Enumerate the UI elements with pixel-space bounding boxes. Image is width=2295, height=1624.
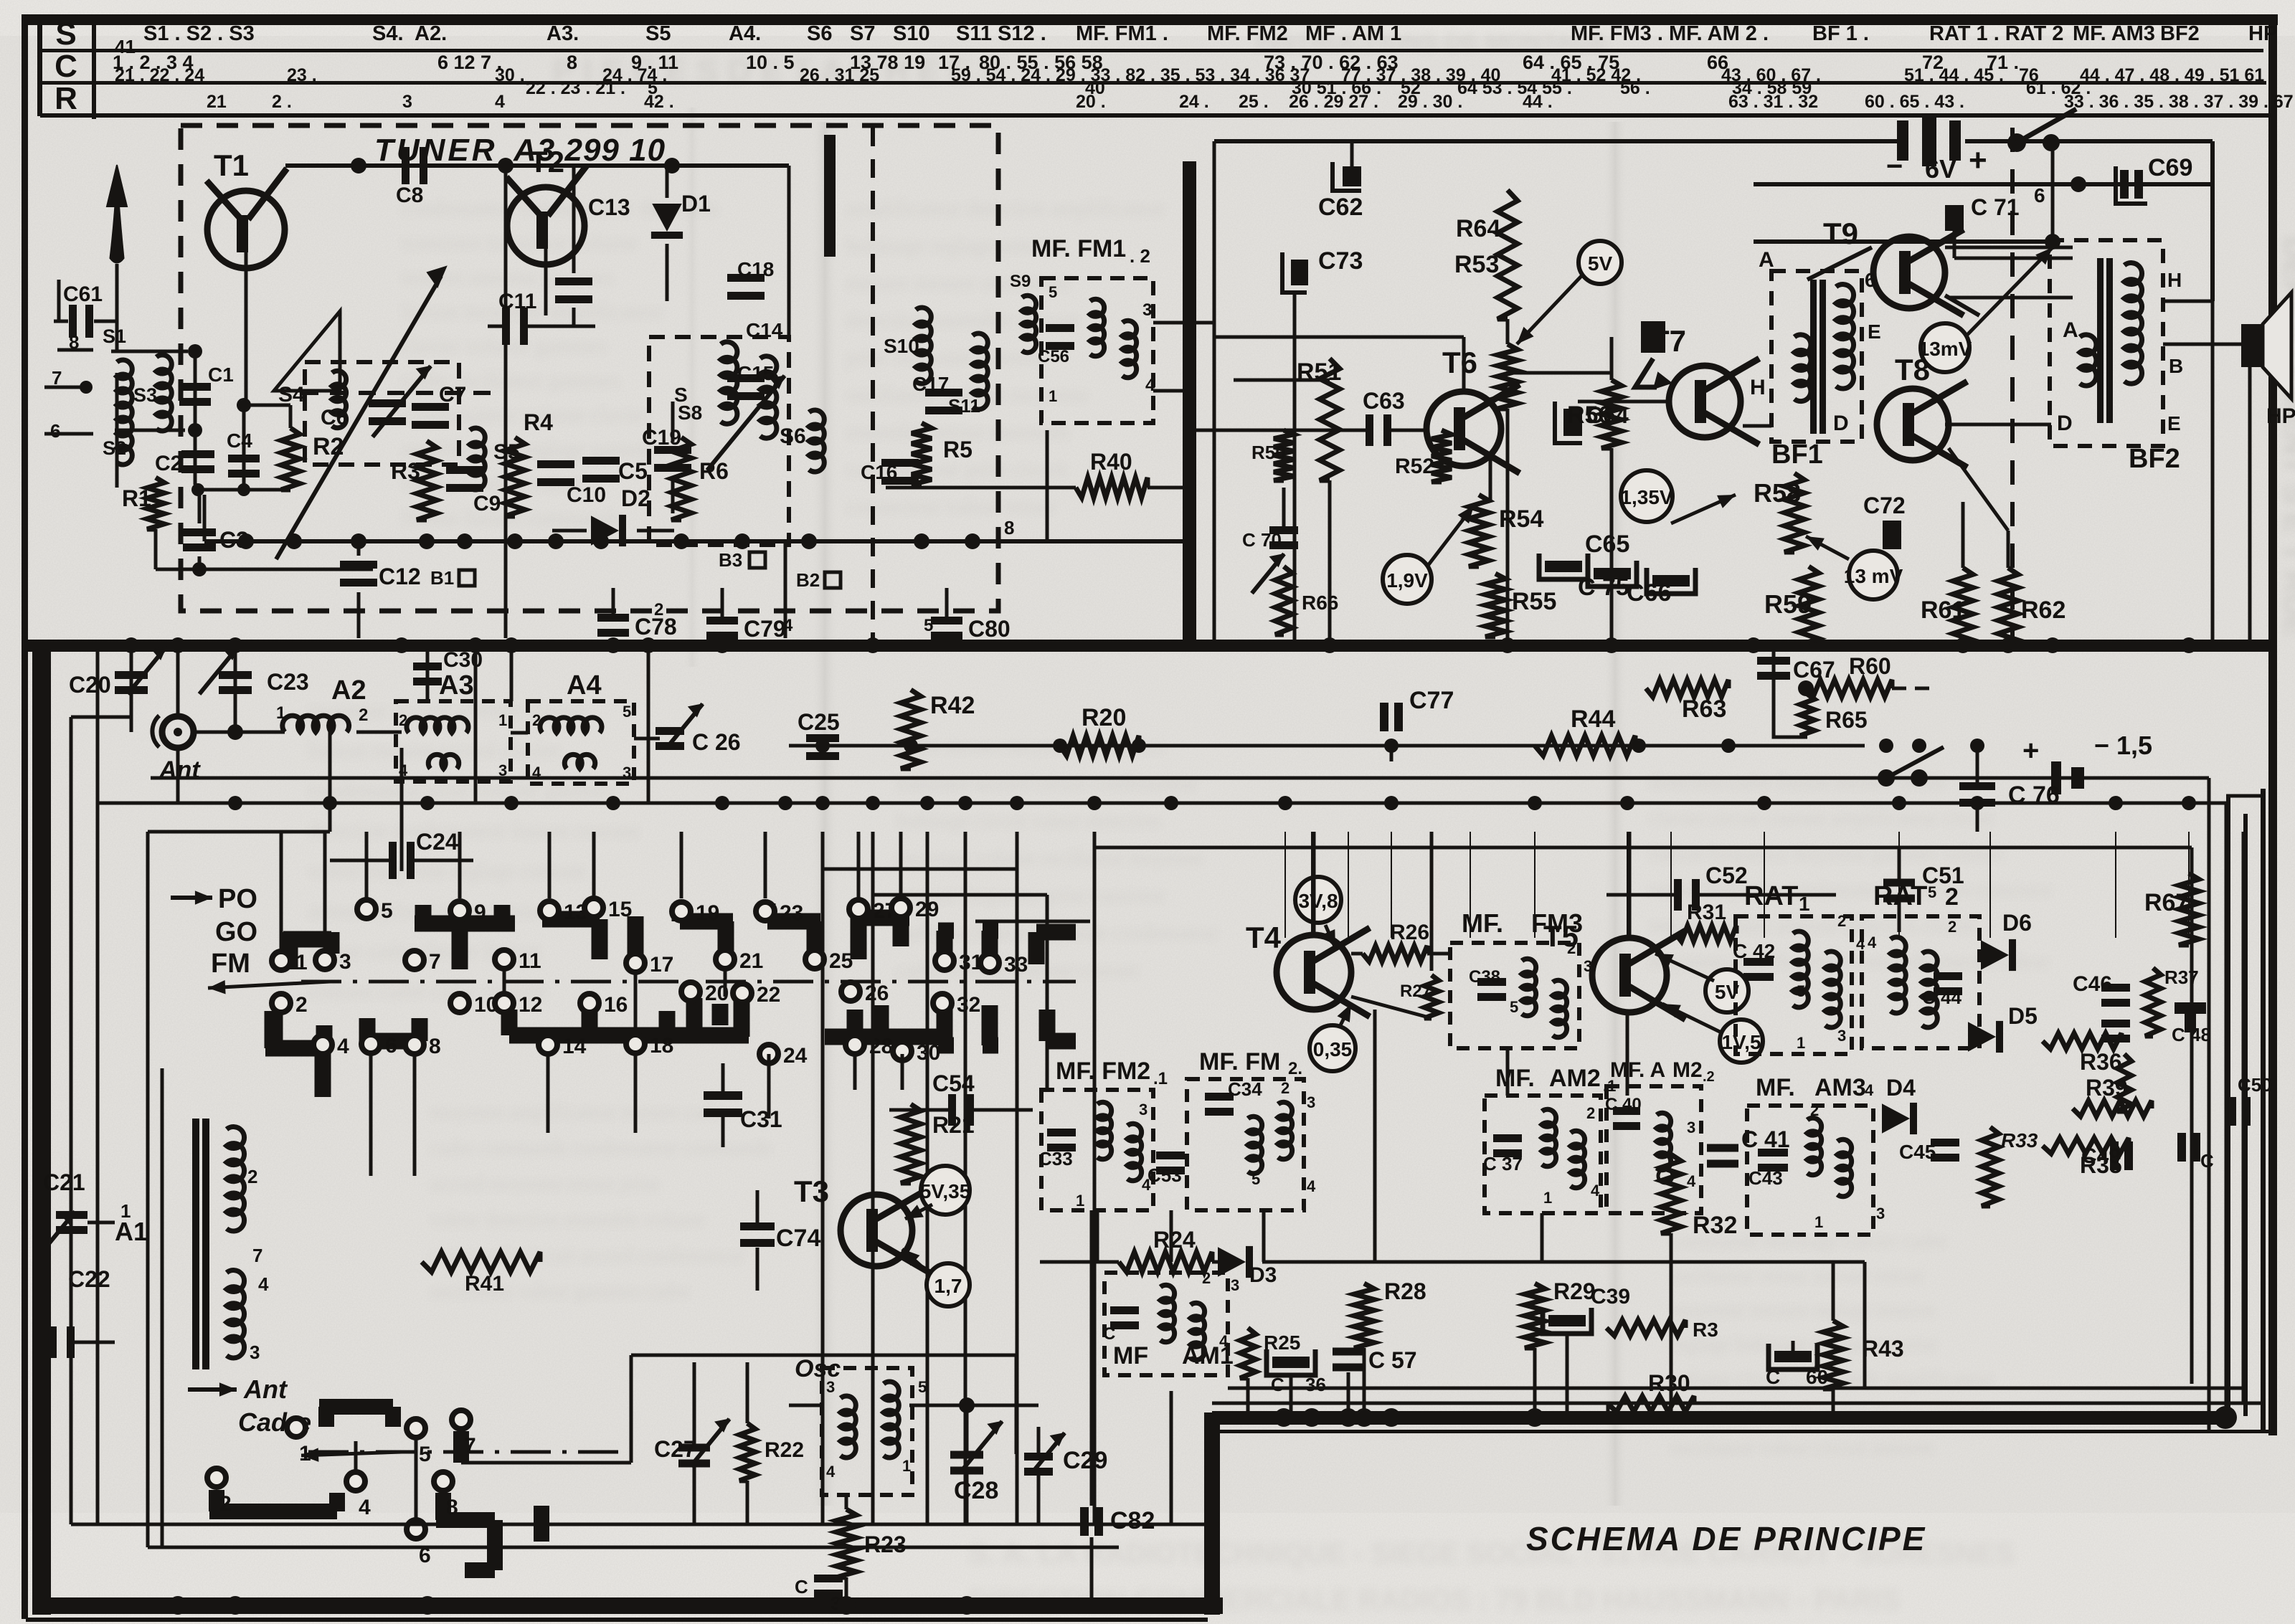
switch contact [539,1035,557,1054]
transistor T1 [207,148,287,268]
arrow [1662,1004,1721,1032]
antenna connector Ant [152,716,194,748]
wire [721,1116,725,1147]
wire [1293,293,1297,640]
svg-text:36: 36 [1305,1374,1326,1395]
switch bar [767,913,820,930]
switch contact [434,1472,453,1491]
inductor coil [1657,1113,1671,1170]
capacitor [219,671,252,694]
switch contact [407,1520,425,1539]
inductor coil [2080,335,2096,386]
svg-text:S6: S6 [807,22,832,45]
wire [1541,1213,1544,1262]
wire [1016,832,1019,1524]
wire [1427,952,1450,956]
junction [957,1596,976,1615]
wire [1090,1210,1094,1506]
svg-text:C66: C66 [1627,579,1671,607]
switch contact [452,1410,470,1429]
dashed enclosure box [396,701,511,782]
capacitor [881,459,919,485]
svg-text:2 .: 2 . [272,92,292,112]
svg-text:B1: B1 [430,567,454,589]
wire [503,969,506,994]
svg-text:4: 4 [826,1463,836,1481]
wire [764,832,767,898]
wire [176,645,180,717]
junction [1879,739,1893,753]
svg-text:R54: R54 [1499,505,1543,533]
switch bar [938,923,954,939]
wire [945,588,949,621]
resistor [1823,1321,1843,1389]
switch bar [542,911,600,928]
dashed enclosure box [181,125,998,611]
wire [1772,651,1776,688]
inductor coil [332,371,346,428]
svg-text:5: 5 [623,703,631,721]
inductor coil [283,716,349,732]
svg-text:R50: R50 [1251,442,1286,463]
svg-text:detection ensemble mesure: detection ensemble mesure [846,308,1079,332]
svg-text:R40: R40 [1090,449,1132,475]
wire [1670,1233,1673,1411]
switch bar [893,918,909,946]
svg-text:2: 2 [532,711,541,729]
svg-text:C63: C63 [1363,388,1405,414]
capacitor C72 [1863,493,1906,549]
svg-text:D: D [2057,412,2073,435]
svg-text:C22: C22 [68,1266,110,1292]
arrow [1322,925,1335,948]
svg-text:B3: B3 [719,549,742,571]
svg-text:3: 3 [1139,1101,1147,1119]
svg-text:3: 3 [402,92,412,112]
switch contact [495,950,514,969]
wire [146,832,150,1547]
wire [1962,502,1965,568]
svg-text:− 1,5: − 1,5 [2094,731,2152,760]
capacitor [1380,703,1403,731]
capacitor [2101,984,2130,1007]
capacitor [597,614,629,637]
svg-text:R64: R64 [1456,215,1500,242]
svg-text:S1: S1 [103,326,126,347]
svg-text:C 57: C 57 [1368,1347,1417,1373]
wire [44,386,86,389]
junction [593,533,609,549]
arrow [1427,505,1474,566]
svg-text:C: C [1103,1324,1115,1344]
wire [510,645,514,701]
junction [238,533,254,549]
wire [544,249,548,315]
wire [1262,1260,1865,1264]
dashed enclosure box [1041,1090,1153,1210]
svg-text:T9: T9 [1823,217,1858,250]
svg-text:7: 7 [464,1434,476,1458]
svg-text:1: 1 [1543,1189,1552,1207]
svg-text:2: 2 [247,1166,257,1187]
svg-text:S4.: S4. [372,22,404,45]
wire [130,645,133,732]
junction [420,796,435,810]
wire [1170,1391,1173,1524]
switch contact [272,994,290,1012]
wire [2211,301,2215,645]
svg-text:26 . 31 25: 26 . 31 25 [800,65,879,85]
voltage test point 1,7 [927,1263,970,1306]
wire [1945,295,1979,315]
wire [671,476,675,513]
wire [2248,367,2252,644]
diode [1882,1103,1917,1134]
svg-text:valeur moyenne reglage courant: valeur moyenne reglage courant [308,859,585,883]
svg-text:A4.: A4. [729,22,761,45]
junction [1274,1408,1293,1427]
svg-text:C69: C69 [2148,154,2192,181]
wire [767,1054,771,1119]
svg-text:MF.: MF. [1495,1065,1535,1092]
svg-text:7: 7 [252,1245,262,1266]
wire [198,485,202,523]
wire [111,351,195,485]
trimmer arrow [199,647,238,694]
svg-text:R: R [55,81,77,116]
svg-text:32: 32 [957,993,980,1017]
wire [280,832,283,952]
wire [1886,747,1944,778]
svg-text:44 .: 44 . [1523,92,1553,112]
svg-text:C52: C52 [1705,863,1748,888]
svg-text:7: 7 [429,950,441,974]
junction [1604,637,1619,653]
junction [192,562,207,576]
svg-text:2: 2 [359,706,368,725]
svg-text:C: C [55,49,77,84]
svg-text:5: 5 [1510,998,1518,1016]
svg-text:RAT 1 . RAT 2: RAT 1 . RAT 2 [1929,22,2063,45]
inductor coil [1837,1139,1852,1197]
svg-text:4: 4 [783,616,793,635]
inductor coil [1122,320,1137,378]
svg-text:4: 4 [1865,1081,1874,1099]
svg-text:1V,5: 1V,5 [1721,1031,1761,1053]
switch bar [1047,1033,1076,1050]
svg-text:C 71: C 71 [1971,194,2020,220]
junction [237,483,250,496]
dashed enclosure box [528,701,634,784]
wire [534,1506,549,1542]
svg-text:BF1: BF1 [1771,440,1823,470]
svg-text:R26: R26 [1390,921,1429,944]
svg-text:2: 2 [1810,1101,1819,1119]
junction [2182,796,2196,810]
junction [664,158,680,174]
svg-text:3: 3 [1876,1205,1885,1222]
svg-text:. 2: . 2 [1130,245,1150,267]
wire [2210,141,2215,301]
junction [865,637,881,653]
wire [354,1441,358,1471]
wire [1347,1372,1350,1418]
inductor coil [1127,1124,1142,1181]
junction [468,637,483,653]
svg-text:C33: C33 [1038,1148,1073,1169]
diode [591,515,626,546]
svg-text:11: 11 [519,949,541,973]
wire [823,868,1017,871]
wire [57,348,93,352]
resistor [1076,478,1147,498]
switch bar [1036,924,1076,941]
switch contact [405,1035,424,1054]
wire [54,320,68,323]
svg-text:GO: GO [215,917,257,947]
capacitor [1674,879,1700,911]
wire [1212,1402,2261,1405]
junction [228,796,242,810]
svg-text:R24: R24 [1153,1227,1196,1253]
wire [156,568,373,571]
svg-text:5: 5 [1251,1170,1260,1188]
svg-text:C13: C13 [588,194,630,220]
wire [1700,893,1836,897]
svg-text:.2: .2 [1703,1069,1715,1085]
wire [637,529,674,533]
svg-text:B2: B2 [796,569,820,591]
junction [920,796,934,810]
svg-text:8: 8 [567,52,577,73]
svg-text:S7: S7 [850,22,875,45]
wire [301,391,502,395]
wire [1214,336,1464,339]
svg-text:R52: R52 [1395,455,1434,478]
wire [96,645,100,803]
diode [1218,1246,1253,1278]
transformer BF1 core [1810,280,1826,434]
dashed enclosure box [1862,916,1979,1048]
svg-text:1: 1 [1799,893,1810,915]
capacitor [740,1222,775,1247]
wire [1606,893,1674,897]
wire [70,717,73,1524]
wire [1351,952,1363,956]
switch contact [841,982,860,1001]
capacitor [2228,1097,2251,1126]
svg-text:A3: A3 [439,670,474,701]
dashed enclosure box [1771,271,1862,442]
resistor [1060,736,1139,756]
svg-text:MF. FM3 . MF. AM 2 .: MF. FM3 . MF. AM 2 . [1571,22,1769,45]
resistor [1982,1127,1999,1206]
svg-text:R5: R5 [943,437,973,462]
wire [572,308,576,326]
switch bar [734,998,750,1037]
svg-text:R36: R36 [2080,1049,2122,1075]
node [1658,1169,1672,1183]
wire [1037,1474,1041,1524]
arrow [1671,495,1736,523]
svg-text:10 . 5: 10 . 5 [746,52,795,73]
junction [1632,739,1646,753]
svg-text:4: 4 [1687,1172,1696,1190]
inductor coil [760,356,777,438]
capacitor [228,455,260,478]
inductor coil [428,754,459,769]
wire [98,802,785,805]
wire [889,1108,948,1112]
junction [2181,637,2197,653]
capacitor [814,1575,843,1597]
wire [511,731,528,735]
arrow [905,1205,932,1219]
svg-text:C12: C12 [379,564,421,589]
svg-text:C82: C82 [1110,1507,1155,1534]
svg-text:1,7: 1,7 [934,1275,962,1297]
wire [2242,832,2246,1403]
wire [1234,379,1330,382]
inductor coil [841,1396,856,1458]
svg-text:5: 5 [924,616,933,635]
svg-text:clavier circuit courant amplif: clavier circuit courant amplificateur ci… [1650,807,1994,830]
capacitor [654,446,691,472]
svg-text:C77: C77 [1409,687,1454,714]
resistor [1469,495,1489,566]
capacitor C62 [1318,162,1363,221]
junction [1302,1408,1321,1427]
wire [1670,832,1672,938]
switch contact [846,1035,864,1054]
svg-text:S: S [55,16,76,52]
wire [1183,429,1348,432]
dashed enclosure box [1736,916,1852,1054]
resistor [1953,568,1973,647]
svg-text:18: 18 [650,1034,673,1058]
wire [901,1054,904,1090]
wire [1506,1048,1510,1096]
resistor [1675,926,1736,941]
wire [1147,486,1183,490]
wire [1954,257,2073,260]
svg-text:C49: C49 [2081,1144,2121,1168]
svg-text:44 . 47 . 48 . 49 . 51 61: 44 . 47 . 48 . 49 . 51 61 [2080,65,2264,85]
fuse B1 [430,567,475,589]
svg-text:FM: FM [211,949,250,979]
junction [1384,796,1399,810]
voltage test point 13 mV [1844,551,1903,599]
wire [1898,846,1901,879]
svg-text:T8: T8 [1895,353,1930,386]
svg-text:A1: A1 [115,1217,148,1246]
wire [285,163,789,168]
capacitor [1588,561,1637,587]
svg-text:R30: R30 [1648,1370,1690,1396]
inductor A1 core [192,1119,209,1369]
junction [286,533,302,549]
svg-text:H: H [2167,269,2182,291]
svg-text:C56: C56 [1038,347,1069,366]
wire [1040,1260,1119,1264]
switch bar [282,932,298,969]
svg-text:R20: R20 [1082,704,1126,731]
capacitor [1080,1507,1103,1536]
capacitor [115,671,148,694]
svg-text:25 .: 25 . [1239,92,1269,112]
junction [188,423,202,437]
svg-text:12: 12 [519,993,542,1017]
wire [198,488,285,492]
svg-text:C80: C80 [968,616,1011,642]
wire [1626,1012,1629,1096]
inductor coil [564,754,595,769]
junction [418,1596,437,1615]
switch contact [935,951,954,970]
svg-text:amplificateur detection amplif: amplificateur detection amplificateur [846,196,1165,220]
svg-text:C11: C11 [498,290,536,313]
arrow [1806,536,1849,559]
svg-text:2.: 2. [1288,1059,1302,1078]
wire [2226,794,2261,798]
svg-text:C27: C27 [654,1436,696,1462]
capacitor [806,734,839,760]
resistor [1535,736,1635,756]
junction [1355,1408,1373,1427]
wire [1282,488,1286,528]
svg-text:S10: S10 [884,335,919,357]
svg-text:6: 6 [1865,269,1876,291]
wire [357,541,361,556]
resistor [1608,1396,1694,1412]
svg-text:R59: R59 [1764,589,1812,619]
transistor T7 [1651,324,1759,445]
junction [2071,176,2086,192]
junction [504,796,519,810]
capacitor [704,1091,742,1117]
svg-text:2: 2 [399,711,407,729]
svg-text:A3.: A3. [546,22,579,45]
switch bar [359,1018,376,1041]
switch contact [756,902,775,921]
svg-text:MF. AM3: MF. AM3 [2073,22,2155,45]
svg-text:T1: T1 [214,148,249,182]
trimmer arrow [128,647,166,694]
svg-text:C34: C34 [1228,1078,1262,1100]
switch bar [982,931,998,967]
junction [507,533,523,549]
svg-text:.1: .1 [1153,1069,1168,1088]
svg-text:S9: S9 [1010,272,1031,291]
junction [815,739,830,753]
capacitor [49,1326,75,1358]
svg-text:1: 1 [902,1457,911,1475]
capacitor [2177,1133,2200,1162]
wire [57,280,61,321]
wire [552,529,587,533]
wire [1037,1427,1041,1454]
svg-text:T2: T2 [529,145,564,179]
wire [1213,141,1216,640]
capacitor [1046,324,1074,350]
switch bar [1028,932,1045,964]
wire [204,539,785,543]
svg-text:2: 2 [219,1492,232,1516]
resistor [1274,430,1294,480]
inductor coil [1836,285,1854,389]
junction [351,158,366,174]
wire [43,1341,49,1344]
